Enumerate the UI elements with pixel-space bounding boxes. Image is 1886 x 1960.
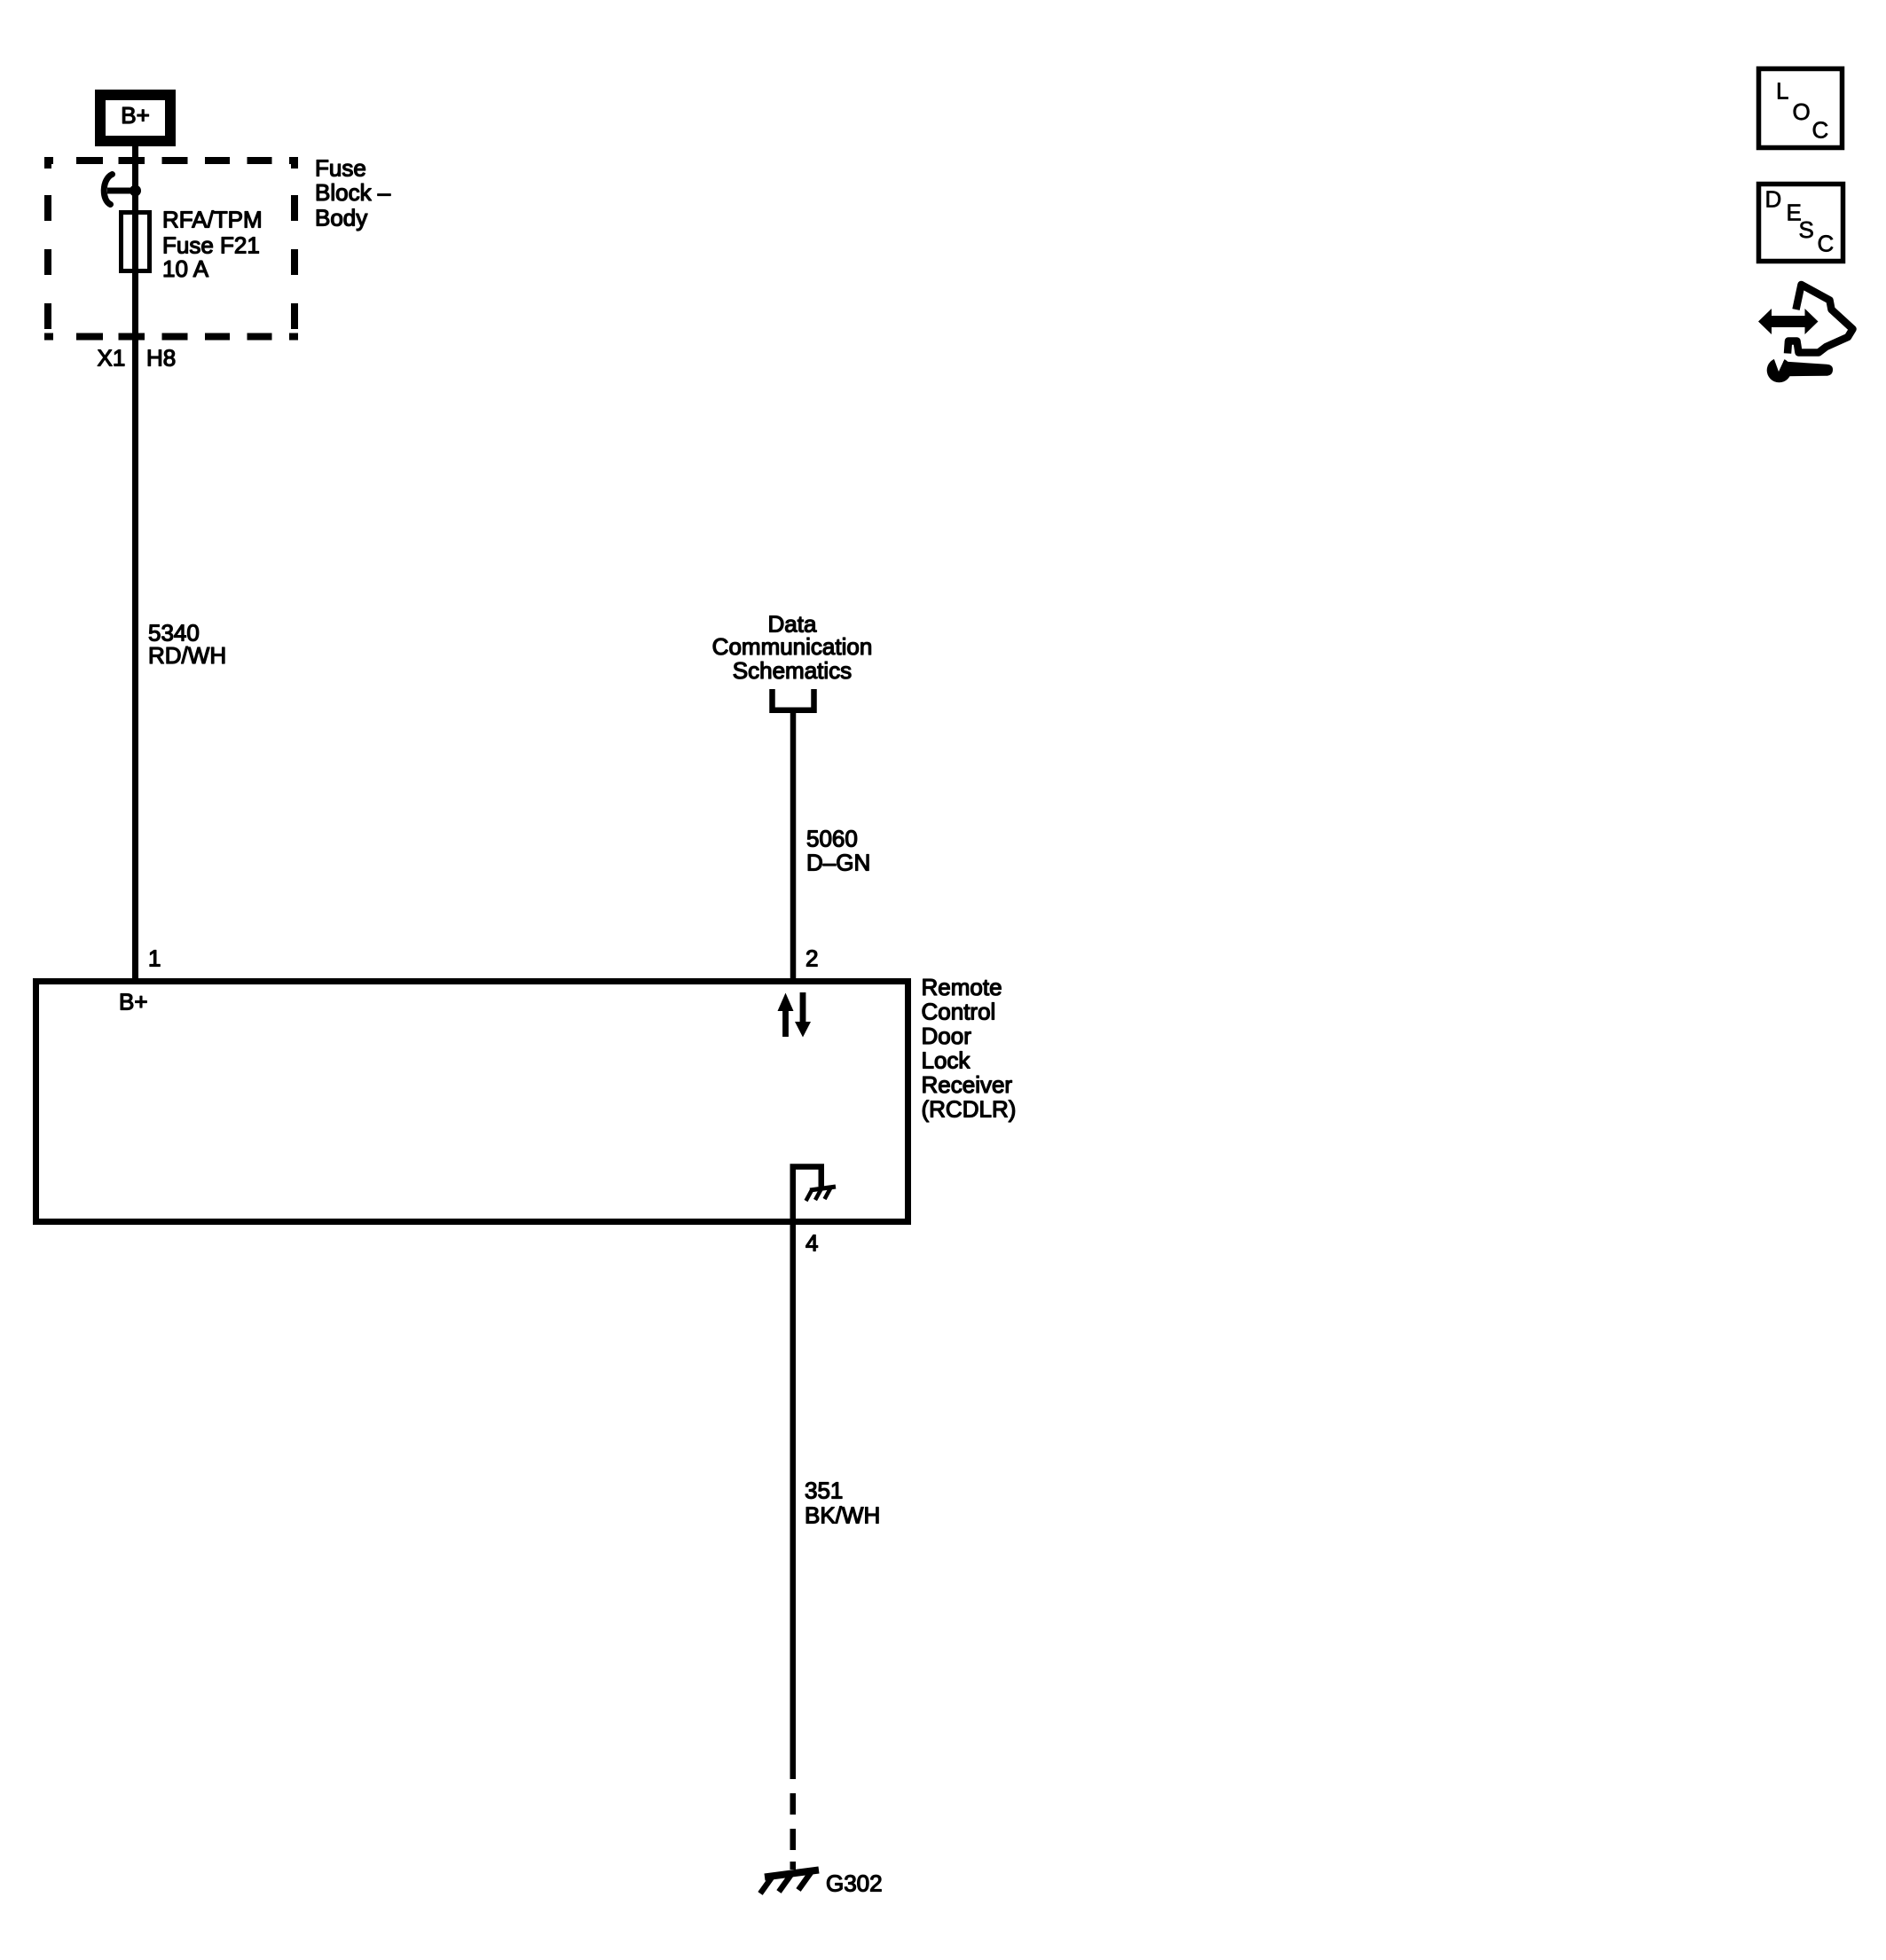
junction dot	[130, 185, 141, 197]
dashed wire segment to ground	[790, 1793, 797, 1870]
svg-text:X1: X1	[98, 345, 126, 372]
svg-text:D: D	[1765, 186, 1782, 213]
svg-text:Fuse: Fuse	[315, 155, 366, 182]
repair instructions icon: part outline	[1788, 285, 1853, 354]
repair instructions icon: wrench	[1767, 357, 1833, 383]
fuse block dashed enclosure	[44, 157, 298, 341]
svg-text:Schematics: Schematics	[733, 657, 852, 684]
svg-text:Receiver: Receiver	[922, 1071, 1013, 1098]
svg-text:O: O	[1793, 98, 1811, 125]
svg-text:5060: 5060	[806, 826, 858, 852]
svg-text:1: 1	[148, 945, 161, 972]
RCDLR label	[922, 974, 1017, 1123]
svg-text:Communication: Communication	[712, 633, 873, 660]
clip / terminal connector symbol on feed wire	[104, 175, 135, 205]
svg-text:Lock: Lock	[922, 1047, 971, 1074]
svg-text:G302: G302	[826, 1870, 883, 1897]
battery feed B+ terminal box	[100, 95, 170, 141]
svg-text:RFA/TPM: RFA/TPM	[162, 207, 263, 233]
connector X1 pin H8 labels	[98, 345, 177, 372]
fuse block label	[315, 155, 391, 231]
svg-text:RD/WH: RD/WH	[148, 642, 226, 669]
ground G302	[760, 1870, 819, 1894]
wire from bracket to RCDLR pin 2 (circuit 5060)	[790, 710, 797, 981]
svg-text:(RCDLR): (RCDLR)	[922, 1096, 1017, 1123]
svg-text:L: L	[1776, 78, 1788, 105]
serial data up/down arrows inside RCDLR	[778, 992, 812, 1038]
svg-text:4: 4	[805, 1230, 818, 1257]
svg-text:Control: Control	[922, 999, 996, 1025]
off-page reference: Data Communication Schematics	[712, 611, 873, 685]
wire label 351 BK/WH	[805, 1478, 880, 1529]
svg-text:2: 2	[805, 945, 818, 972]
svg-text:351: 351	[805, 1478, 843, 1504]
svg-text:10 A: 10 A	[162, 255, 209, 282]
DESC reference box	[1759, 184, 1843, 262]
svg-text:Block –: Block –	[315, 179, 391, 206]
fuse RFA/TPM F21 10A	[122, 213, 150, 271]
LOC reference box	[1759, 69, 1843, 148]
repair instructions icon: double arrow	[1758, 309, 1819, 334]
RCDLR module box	[36, 982, 908, 1222]
svg-text:Remote: Remote	[922, 974, 1002, 1000]
svg-text:S: S	[1799, 216, 1814, 243]
wire from B+ to RCDLR pin 1 (circuit 5340)	[132, 144, 138, 981]
off-page connector bracket	[773, 689, 814, 710]
svg-text:C: C	[1818, 231, 1835, 257]
svg-text:Fuse F21: Fuse F21	[162, 232, 260, 259]
svg-text:BK/WH: BK/WH	[805, 1502, 880, 1529]
wire from RCDLR pin 4 (circuit 351)	[790, 1221, 797, 1779]
wire label 5340 RD/WH	[148, 620, 226, 670]
svg-text:H8: H8	[146, 345, 176, 372]
svg-text:Body: Body	[315, 205, 367, 231]
svg-text:B+: B+	[119, 989, 148, 1015]
fuse value label	[162, 207, 263, 283]
svg-text:B+: B+	[121, 102, 150, 129]
svg-text:Door: Door	[922, 1023, 972, 1049]
svg-text:D–GN: D–GN	[806, 850, 870, 876]
svg-text:C: C	[1812, 117, 1829, 144]
wire label 5060 D-GN	[806, 826, 870, 876]
internal ground symbol at pin 4	[793, 1167, 836, 1222]
